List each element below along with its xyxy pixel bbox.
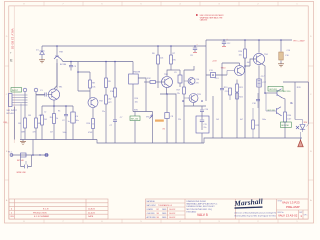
capacitor C7 [110,120,118,143]
svg-text:C15: C15 [204,124,207,126]
transistor TR1 first stage [48,87,63,101]
transistor TR8 top [54,46,67,89]
svg-text:1u: 1u [68,121,70,123]
capacitor C3 [69,62,77,71]
svg-text:C2: C2 [44,112,46,114]
resistor R8 [89,72,96,98]
svg-text:ENGLAND: ENGLAND [187,210,197,213]
wire mid column x206 [205,46,207,101]
module box tone cap C15 [196,116,209,143]
wire ground bus mid y143 [97,140,204,144]
wire stage2 column x146 [138,78,146,112]
capacitor C16 electrolytic [279,40,290,64]
svg-text:MARSHALL AMPLIFICATION PLC: MARSHALL AMPLIFICATION PLC [187,203,218,206]
svg-text:10k: 10k [92,87,95,89]
resistor R17 inline [177,87,186,143]
red engineering note top [196,14,224,22]
power link assembly [8,140,48,158]
capacitor C4 electrolytic [71,106,79,140]
border grid letters left [6,36,8,202]
resistor R4 [41,106,48,140]
svg-text:4k7: 4k7 [240,119,243,121]
potentiometer VR1 column [146,112,164,144]
svg-text:E.C.N. NUMBER: E.C.N. NUMBER [34,216,50,218]
transistor TR3 [189,94,202,103]
resistor R24 [239,40,247,68]
transistor TR2 [88,98,104,108]
svg-text:DATE: DATE [88,215,94,218]
wire TR1 collector right [54,63,57,89]
svg-text:10k: 10k [135,102,138,104]
wire drive row y93 [265,92,277,94]
wire stage3 row y106 [184,103,206,107]
wire TR1 base [48,94,52,96]
diode D1 column [36,46,45,60]
wire emitter row [42,105,73,107]
wire row y111.5 [133,111,153,113]
capacitor value labels extra [28,50,301,126]
resistor R2 [35,118,41,140]
wire TR3 base [184,97,192,99]
test point TP1 [23,88,27,118]
wire rail step [205,40,207,46]
revision table bottom left [9,199,108,219]
svg-text:22n: 22n [204,127,207,129]
border grid ticks right [308,66,313,180]
wire HT rail A y46 [42,45,206,47]
svg-text:SW1: SW1 [134,110,138,112]
svg-text:100n: 100n [63,132,67,134]
capacitor C8 electrolytic [165,94,174,143]
capacitor C13 series [209,70,216,78]
svg-text:10u: 10u [76,120,79,122]
svg-text:22-6-92: 22-6-92 [88,212,96,214]
resistor R6 [152,46,163,88]
svg-text:INPUT: INPUT [12,90,19,92]
ground symbol left top [39,60,45,63]
wire right bus column [308,82,310,124]
svg-text:PRODUCTION: PRODUCTION [33,212,47,214]
svg-text:68k: 68k [39,115,42,117]
svg-text:10-8-92: 10-8-92 [169,217,175,219]
left drawing margin line [13,6,15,143]
value labels lower row [21,111,266,135]
border grid numbers bottom [23,221,298,223]
resistor R1 [18,118,26,140]
jack socket SK1 [7,94,28,140]
wire TR6 input row [266,93,277,111]
svg-text:CHECKED: CHECKED [147,213,156,215]
border grid ticks top [44,1,278,6]
transistor TR5 driver [277,89,291,98]
capacitor C18 [252,93,260,108]
IC U1 green module [130,110,140,144]
ground symbol main bus [20,140,26,145]
svg-text:A division of Marshall Amplifi: A division of Marshall Amplification plc… [235,211,277,214]
wire feed row y72 [78,62,90,73]
transistor TR4 [253,40,268,65]
capacitor C9 [171,70,182,87]
wire output node row [295,120,303,125]
svg-text:Bletchley Milton Keynes MK1 1D: Bletchley Milton Keynes MK1 1DQ England … [235,214,277,217]
svg-text:100n: 100n [262,119,266,121]
svg-text:+: + [197,44,198,46]
svg-text:10-8-92: 10-8-92 [169,209,175,211]
svg-text:MATERIAL: MATERIAL [147,200,155,203]
resistor R25 [252,108,260,138]
diode D5 output [300,122,308,132]
svg-text:867-400: 867-400 [7,113,15,115]
Marshall logo [233,196,276,217]
wire column x245 mid [244,58,246,96]
title box right [278,200,308,218]
svg-text:47n: 47n [196,82,199,84]
wire ground bus left y139.5 [20,139,97,141]
svg-text:C11: C11 [190,55,193,57]
svg-text:867-130: 867-130 [283,91,291,93]
wire TR4 base [245,59,257,66]
resistor R21 [236,80,244,139]
svg-text:1M: 1M [18,123,21,125]
wire ground bus right y138 [204,138,302,143]
svg-text:68k: 68k [38,123,41,125]
wire column x245 low [244,96,246,138]
title block [146,199,309,219]
wire column x184 [184,66,194,87]
border grid numbers top [23,4,298,6]
resistor R12 base [144,78,156,83]
svg-text:VR1: VR1 [146,117,150,119]
capacitor C19 [220,80,229,138]
svg-text:OF 1: OF 1 [304,214,308,216]
wire HT rail B y40 [206,39,292,41]
svg-text:SK1 INPUT: SK1 INPUT [7,110,18,112]
green part label output [281,122,292,128]
capacitor C1 input coupling [36,90,46,97]
border grid letters right [310,36,312,202]
svg-text:R5: R5 [58,111,60,113]
wire emitter rail y61.5 [61,59,133,62]
wire TR4 emitter right [262,64,266,94]
resistor R20 [229,88,232,100]
wire row y75 [206,74,227,76]
wire TR5 emitter column [282,98,286,113]
svg-text:VALV 5: VALV 5 [197,213,208,217]
wire TR2a emitter row y94 [160,87,176,94]
svg-text:1M: 1M [28,115,31,117]
resistor R22 [236,93,244,99]
svg-text:867-150: 867-150 [131,119,139,121]
wire TR1 emitter down [53,100,55,106]
diode D6 output [296,124,309,138]
wire stage2 column x133 [132,84,134,112]
resistor R10 [87,108,95,140]
svg-text:r: r [10,51,11,55]
svg-text:47k: 47k [177,93,180,95]
capacitor C14 [200,106,209,116]
wire link loop [21,155,32,168]
transistor TR6 driver [268,107,282,116]
svg-text:470: 470 [33,132,36,134]
resistor R14 labels [135,98,140,104]
wire column x213 [212,96,214,138]
svg-text:DENBIGH ROAD, BLETCHLEY: DENBIGH ROAD, BLETCHLEY [187,205,216,208]
svg-text:+15V: +15V [212,61,217,63]
wire TR10 collector [222,63,240,80]
svg-text:HT1 +330V: HT1 +330V [294,40,306,42]
transistor TR9 package [129,62,141,85]
svg-text:MATL.SPEC: MATL.SPEC [147,204,157,207]
test point TP2 [34,88,38,118]
border grid ticks left [5,66,9,180]
resistor R16 [110,62,116,120]
svg-text:DIMENSIONS IN MM: DIMENSIONS IN MM [187,201,206,203]
svg-text:22u: 22u [102,111,105,113]
svg-text:1k5: 1k5 [216,119,219,121]
svg-text:TOLERANCE 0.5: TOLERANCE 0.5 [158,204,172,207]
svg-text:1k: 1k [56,118,58,120]
transistor TR10 [221,66,245,76]
resistor R7 [167,46,176,76]
svg-text:22k: 22k [178,119,181,121]
wire output top rail y82 [283,81,309,83]
wire column x176 [175,94,177,143]
transistor Q5 [184,78,200,85]
resistor R11 [105,95,113,143]
wire TR10 base [227,71,235,76]
input connector green label [11,88,22,93]
svg-text:2k7: 2k7 [50,132,53,134]
resistor R9 [105,62,112,96]
capacitor C2 [62,106,68,140]
svg-text:PRE-AMP: PRE-AMP [286,205,300,209]
resistor R30 [284,112,293,138]
capacitor C12 on rail B [222,39,230,47]
svg-text:VALV 13 B3-02: VALV 13 B3-02 [10,29,14,50]
svg-text:+: + [227,39,228,41]
ground symbol output chassis [298,138,303,147]
svg-text:1M8: 1M8 [21,132,25,134]
border grid ticks bottom [44,219,278,223]
svg-text:10-8-92: 10-8-92 [169,213,175,215]
svg-text:470R: 470R [88,132,93,134]
transistor TR2a second stage [162,74,173,88]
svg-text:867-281: 867-281 [270,89,278,91]
svg-text:DRAWN: DRAWN [147,208,154,211]
svg-text:867-230: 867-230 [281,125,289,127]
resistor R5 [53,106,59,140]
svg-text:E.C.N: E.C.N [43,209,49,211]
ground symbol under C16 [278,64,284,67]
svg-text:10-8-92: 10-8-92 [88,209,96,211]
svg-text:BC184: BC184 [60,64,67,66]
svg-text:10k: 10k [160,58,163,60]
wire mid output column [294,82,296,120]
svg-text:2N5088: 2N5088 [133,72,141,74]
wire feed row y91 [78,72,90,91]
svg-text:APPROVED: APPROVED [147,216,157,219]
wire TR2a base [156,81,165,83]
svg-text:WIRE LINK: WIRE LINK [17,172,27,174]
svg-text:10k: 10k [239,54,242,56]
svg-text:47k: 47k [173,60,176,62]
svg-text:1k: 1k [92,124,94,126]
svg-text:CABLING: CABLING [200,19,208,22]
svg-text:C12: C12 [227,43,230,45]
capacitor C17 film [257,65,267,138]
wire TP2 to C1 [36,94,44,96]
svg-text:VALV 13 A3-02: VALV 13 A3-02 [278,213,298,217]
green part number label [268,86,283,91]
capacitor C11 on rail A [190,44,198,57]
